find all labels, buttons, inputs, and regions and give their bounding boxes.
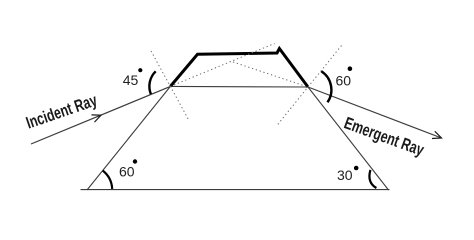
60 degree angle arc at exit: [321, 71, 331, 102]
dotted extension of incident ray: [170, 44, 274, 87]
bottom edge of prism: [81, 189, 390, 191]
svg-text:30: 30: [337, 167, 353, 183]
dotted normal at exit point: [277, 46, 342, 127]
thick truncated top of prism: [170, 49, 308, 88]
incident ray: [31, 86, 170, 144]
degree dot of top 60: [348, 66, 353, 71]
refracted ray inside prism (E to X): [170, 85, 308, 88]
45 degree angle arc at entry: [149, 71, 155, 94]
degree dot of bottom 60: [133, 159, 137, 163]
svg-text:45: 45: [123, 72, 139, 88]
dotted backward extension of emergent ray: [233, 62, 308, 87]
60 degree angle arc at bottom-left corner: [103, 171, 112, 189]
incident ray arrowhead: [92, 115, 102, 122]
degree dot of 45: [138, 68, 142, 72]
svg-text:60: 60: [119, 163, 135, 179]
right face of prism (lower thin part): [308, 87, 389, 190]
30 degree angle arc at bottom-right corner: [369, 170, 376, 188]
dotted normal at entry point: [151, 51, 189, 121]
left face of prism (lower thin part): [87, 86, 170, 190]
degree dot of 30: [354, 166, 359, 171]
svg-text:60: 60: [336, 73, 352, 89]
emergent ray arrowhead: [432, 131, 442, 138]
emergent ray: [308, 87, 442, 138]
